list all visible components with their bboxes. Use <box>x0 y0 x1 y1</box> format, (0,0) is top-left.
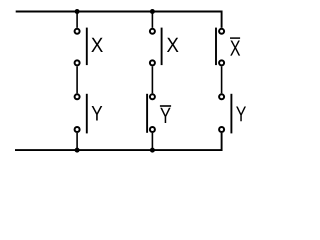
bottom rail (net B) <box>15 133 222 150</box>
wire: branch 3 between switches <box>221 66 223 93</box>
switch Y-bar (branch 2) terminal circles <box>150 94 155 132</box>
wire: branch 2 between switches <box>151 66 153 93</box>
wire: branch 2 switch Y-bar to bottom rail <box>151 133 153 150</box>
wire: branch 2 top rail to switch X <box>151 12 153 28</box>
label X (branch 1) <box>91 38 103 52</box>
switch X (branch 1) terminal circles <box>75 29 80 66</box>
wire: branch 1 switch Y to bottom rail <box>76 133 78 150</box>
junction dot: branch 1 / top rail <box>75 9 80 14</box>
switch X (branch 2) terminal circles <box>150 29 155 66</box>
switch Y (branch 3) contact bar <box>230 94 232 134</box>
switch Y-bar (branch 2) contact bar <box>146 94 148 133</box>
switch X (branch 1) contact bar <box>86 28 88 66</box>
switch X (branch 2) contact bar <box>161 28 163 66</box>
label Y (branch 1) <box>92 106 103 121</box>
top rail (net A) <box>16 12 222 28</box>
switch Y (branch 1) terminal circles <box>75 94 80 132</box>
label X (branch 2) <box>167 38 179 52</box>
junction dot: branch 2 / top rail <box>150 9 155 14</box>
switch Y (branch 3) terminal circles <box>219 94 224 132</box>
switch X-bar (branch 3) contact bar <box>215 28 217 66</box>
label Y-bar (branch 2): glyph <box>160 108 170 123</box>
label Y-bar (branch 2): overbar <box>160 105 171 107</box>
wire: branch 1 between switches <box>76 66 78 93</box>
junction dot: branch 1 / bottom rail <box>75 148 80 153</box>
switch Y (branch 1) contact bar <box>86 94 88 134</box>
label Y (branch 3) <box>236 106 246 121</box>
switch X-bar (branch 3) terminal circles <box>219 29 224 66</box>
label X-bar (branch 3): overbar <box>230 37 240 39</box>
label X-bar (branch 3): glyph <box>230 40 240 55</box>
junction dot: branch 2 / bottom rail <box>150 148 155 153</box>
wire: branch 1 top rail to switch X <box>76 12 78 28</box>
